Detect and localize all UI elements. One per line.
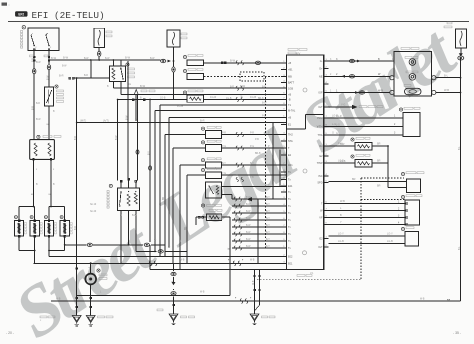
svg-text:No.10: No.10: [90, 204, 97, 206]
svg-text:BR: BR: [185, 226, 187, 230]
svg-text:B-Y: B-Y: [266, 246, 270, 248]
svg-text:IGT: IGT: [318, 106, 323, 109]
svg-text:BR: BR: [163, 196, 165, 200]
svg-text:B-Y: B-Y: [266, 204, 270, 206]
svg-text:P-R: P-R: [250, 132, 254, 134]
svg-text:BR: BR: [377, 184, 381, 187]
svg-text:NE: NE: [319, 75, 323, 78]
svg-text:**: **: [447, 298, 451, 303]
svg-text:1D1: 1D1: [288, 164, 293, 167]
svg-text:LG-Y: LG-Y: [338, 233, 344, 236]
svg-text:W-B: W-B: [340, 200, 345, 203]
svg-text:B-W: B-W: [51, 56, 57, 60]
svg-text:THA: THA: [318, 134, 323, 137]
svg-text:B-R: B-R: [262, 86, 266, 88]
svg-text:M-TAL: M-TAL: [288, 110, 296, 113]
svg-text:G: G: [336, 133, 338, 135]
svg-text:B-W: B-W: [125, 56, 131, 60]
svg-text:+B: +B: [288, 62, 291, 65]
svg-text:P-B: P-B: [262, 115, 266, 117]
svg-text:W-B: W-B: [180, 260, 185, 262]
svg-text:B-Y: B-Y: [222, 163, 226, 165]
svg-text:LG-Y: LG-Y: [387, 233, 393, 236]
svg-text:E01: E01: [288, 262, 293, 265]
svg-text:W-B: W-B: [56, 299, 61, 301]
svg-text:EF2: EF2: [18, 12, 24, 16]
svg-text:BR: BR: [377, 143, 381, 146]
svg-text:B-Y: B-Y: [266, 197, 270, 199]
svg-text:EFI (2E-TELU): EFI (2E-TELU): [32, 10, 105, 21]
svg-text:BR-B: BR-B: [255, 153, 261, 155]
svg-text:B-R: B-R: [33, 106, 35, 110]
svg-text:B-R: B-R: [200, 118, 205, 122]
svg-text:G: G: [332, 132, 334, 135]
svg-text:SPD: SPD: [317, 182, 322, 185]
svg-text:W-B: W-B: [253, 280, 255, 285]
svg-text:G+: G+: [319, 68, 323, 71]
svg-text:ISC: ISC: [318, 175, 322, 178]
svg-text:Y-G: Y-G: [222, 173, 226, 175]
svg-text:B-Y: B-Y: [266, 225, 270, 227]
svg-text:W-B: W-B: [420, 299, 425, 301]
svg-text:+B: +B: [288, 117, 291, 120]
svg-text:(M/T): (M/T): [80, 118, 86, 122]
svg-text:- 35 -: - 35 -: [453, 331, 461, 335]
svg-text:E21: E21: [288, 185, 293, 188]
svg-text:+B1: +B1: [288, 69, 293, 72]
svg-text:TH2: TH2: [288, 134, 293, 137]
svg-text:B-Y: B-Y: [266, 218, 270, 220]
svg-text:-B: -B: [288, 99, 291, 102]
svg-text:VF: VF: [319, 217, 323, 220]
svg-text:Y-B: Y-B: [250, 177, 254, 179]
svg-text:LG-B: LG-B: [338, 240, 344, 243]
svg-text:B-Y: B-Y: [266, 239, 270, 241]
svg-text:W-B: W-B: [200, 292, 205, 294]
svg-text:B-Y: B-Y: [148, 151, 150, 155]
svg-text:P1M: P1M: [317, 117, 322, 120]
svg-text:B-Y: B-Y: [250, 163, 254, 165]
svg-text:(A/T): (A/T): [103, 118, 109, 122]
svg-text:B-R: B-R: [36, 117, 41, 121]
svg-text:No.20: No.20: [90, 211, 97, 213]
svg-text:IGT: IGT: [318, 246, 323, 249]
svg-text:1G-B: 1G-B: [160, 97, 166, 99]
svg-text:P-G: P-G: [222, 146, 226, 148]
svg-text:W-B: W-B: [378, 89, 383, 92]
svg-text:LG-B: LG-B: [340, 161, 346, 163]
svg-text:MB: MB: [288, 76, 292, 79]
svg-text:B-Y: B-Y: [266, 232, 270, 234]
svg-text:L-G: L-G: [336, 125, 340, 127]
svg-text:B-R: B-R: [75, 136, 77, 140]
svg-text:V-TH: V-TH: [317, 126, 323, 129]
svg-text:B-W: B-W: [140, 84, 146, 88]
svg-text:B-R: B-R: [75, 226, 77, 230]
svg-text:P-G: P-G: [250, 146, 254, 148]
svg-text:B-R: B-R: [33, 58, 35, 62]
svg-text:- 20 -: - 20 -: [6, 331, 14, 335]
svg-text:LG-B: LG-B: [387, 240, 393, 243]
svg-text:B-L: B-L: [444, 73, 449, 77]
svg-text:1GB: 1GB: [288, 87, 293, 90]
svg-text:B-W: B-W: [230, 59, 236, 63]
svg-text:E02: E02: [288, 256, 293, 259]
svg-text:W-B: W-B: [250, 260, 255, 262]
svg-text:4PV: 4PV: [296, 54, 301, 56]
svg-text:B-W: B-W: [63, 56, 69, 60]
svg-text:BATT: BATT: [288, 82, 295, 85]
svg-text:B-Y: B-Y: [266, 211, 270, 213]
svg-text:B-R: B-R: [36, 60, 41, 64]
svg-text:B-R: B-R: [36, 103, 40, 105]
svg-text:B-R: B-R: [84, 75, 88, 77]
svg-text:1G-B: 1G-B: [226, 98, 232, 100]
svg-text:IGF: IGF: [318, 92, 323, 95]
svg-text:+B: +B: [288, 94, 291, 97]
svg-text:1G: 1G: [128, 84, 131, 86]
svg-text:B-R: B-R: [230, 86, 234, 88]
svg-text:THW: THW: [317, 162, 323, 165]
svg-text:1G-R: 1G-R: [210, 95, 216, 99]
svg-text:Y-G: Y-G: [341, 103, 345, 107]
svg-text:P-B: P-B: [255, 139, 259, 141]
svg-text:P-R: P-R: [222, 132, 226, 134]
svg-text:W-B: W-B: [444, 88, 449, 92]
svg-text:STA: STA: [288, 140, 293, 143]
svg-text:B-R: B-R: [59, 74, 64, 78]
svg-text:BR: BR: [352, 178, 356, 181]
svg-text:LG-R: LG-R: [336, 116, 342, 118]
svg-text:1G-B: 1G-B: [250, 95, 256, 99]
svg-text:BR-B: BR-B: [258, 98, 264, 100]
svg-text:BR: BR: [377, 160, 381, 163]
svg-text:G-: G-: [320, 60, 323, 63]
